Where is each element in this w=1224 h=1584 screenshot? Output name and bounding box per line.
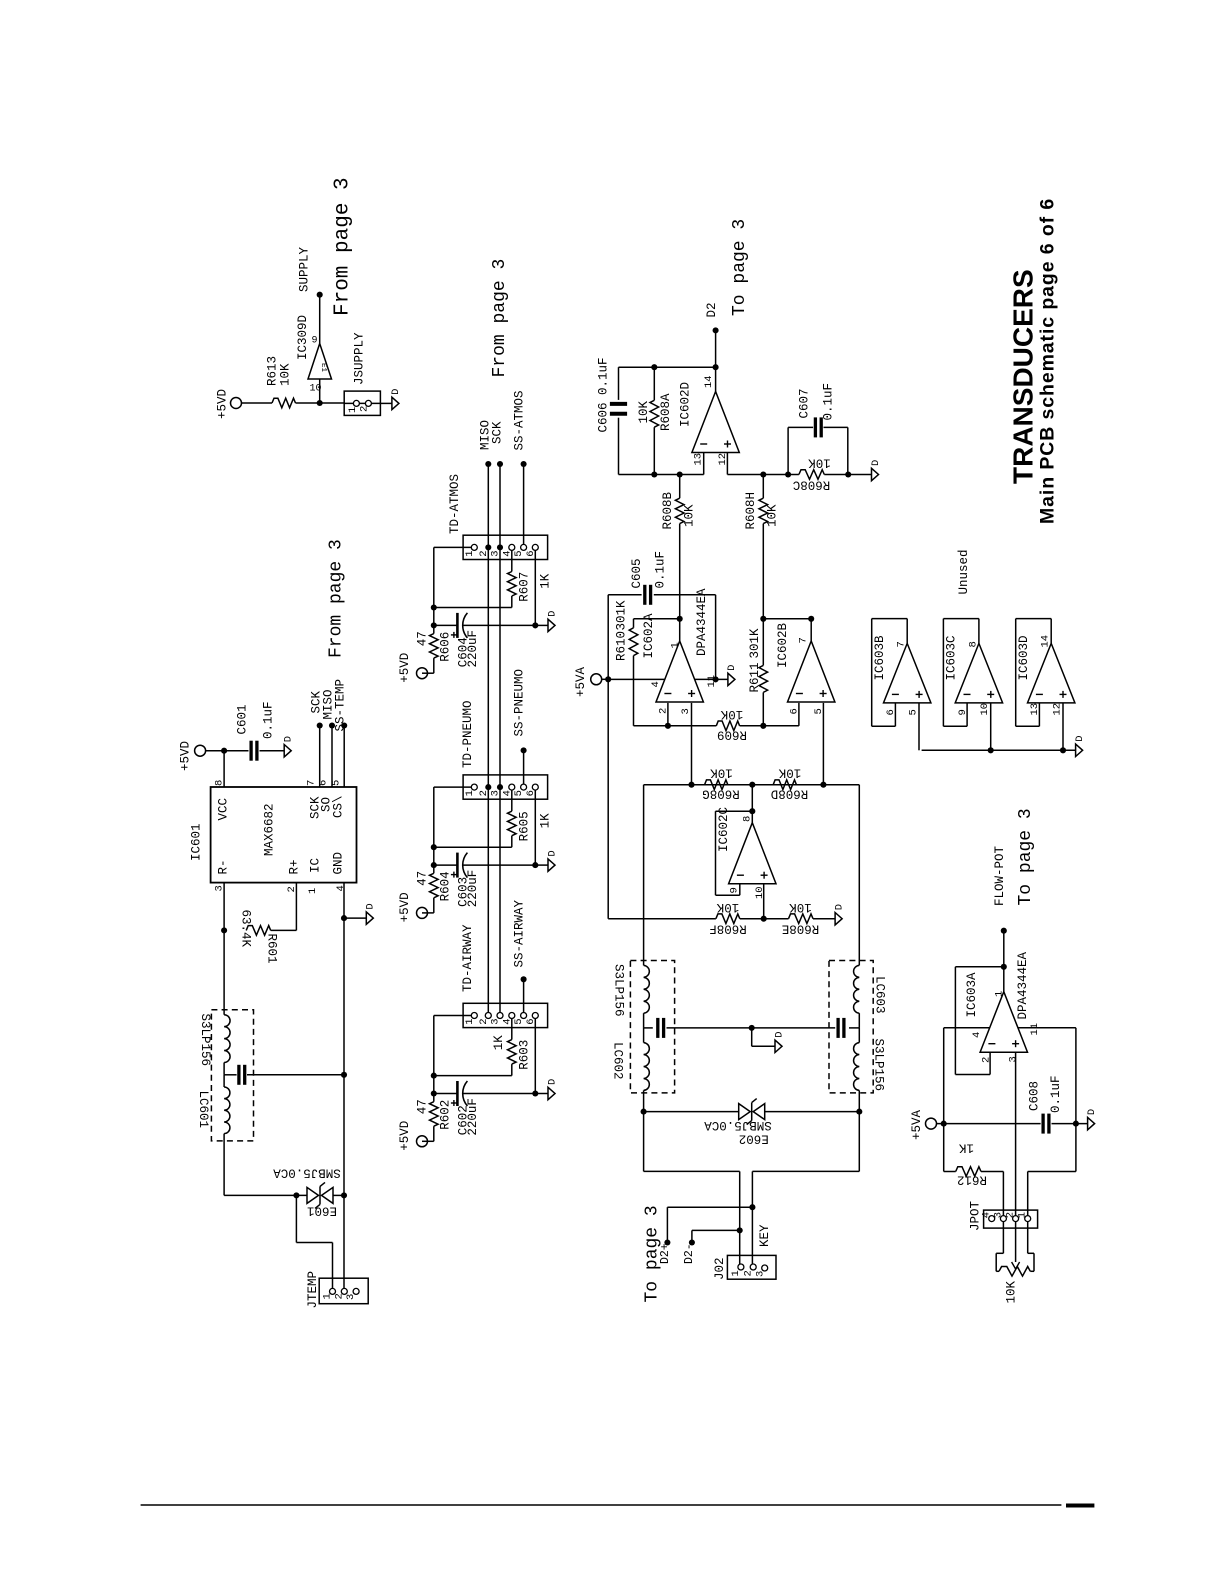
svg-text:10K: 10K bbox=[683, 504, 697, 527]
svg-text:220uF: 220uF bbox=[466, 1098, 480, 1136]
svg-text:14: 14 bbox=[1040, 635, 1052, 648]
wire IC602C pin8 bbox=[751, 785, 753, 823]
ground D (C601) bbox=[283, 736, 295, 757]
node rail row2 TD-PNEUMO bbox=[431, 862, 437, 868]
wire LC602 drop bbox=[643, 785, 645, 966]
svg-text:C608: C608 bbox=[1028, 1081, 1042, 1111]
svg-text:9: 9 bbox=[312, 336, 318, 347]
wire +5VA to rail bbox=[602, 678, 609, 680]
wire C601 to ground bbox=[260, 750, 285, 752]
svg-text:8: 8 bbox=[967, 641, 979, 647]
filter LC601 S3LP156 bbox=[196, 1010, 344, 1141]
node pin4 gnd stub bbox=[341, 915, 366, 921]
svg-text:0.1uF: 0.1uF bbox=[262, 701, 276, 739]
wire IC603D feedback bbox=[1016, 619, 1051, 727]
wire R601 to pin 2 bbox=[271, 883, 298, 931]
wire JTEMP pin1 riser bbox=[296, 1195, 332, 1288]
label From page 3 (SPI) bbox=[327, 539, 347, 658]
svg-text:R608G: R608G bbox=[702, 787, 740, 801]
svg-text:To page 3: To page 3 bbox=[643, 1205, 663, 1302]
svg-text:63.4K: 63.4K bbox=[239, 910, 253, 948]
wire IC602C pin10 bbox=[763, 884, 765, 919]
label Unused bbox=[957, 549, 971, 594]
svg-text:S3LP156: S3LP156 bbox=[612, 964, 626, 1017]
svg-text:D2-: D2- bbox=[683, 1243, 696, 1264]
svg-text:D: D bbox=[283, 736, 295, 742]
svg-text:6: 6 bbox=[318, 780, 330, 786]
resistor R613 10K bbox=[266, 356, 296, 408]
label To page 3 (FLOW-POT) bbox=[1016, 808, 1036, 905]
node R611/R609 bbox=[760, 723, 766, 729]
svg-text:R610: R610 bbox=[615, 631, 629, 661]
svg-text:+5VD: +5VD bbox=[398, 1121, 412, 1151]
diode E602 SMBJ5.0CA bbox=[644, 1099, 860, 1146]
svg-text:4: 4 bbox=[650, 681, 662, 687]
svg-text:TD-AIRWAY: TD-AIRWAY bbox=[461, 924, 475, 992]
svg-text:R606: R606 bbox=[439, 632, 453, 662]
svg-text:R-: R- bbox=[217, 859, 231, 874]
node C607 left bbox=[785, 471, 791, 477]
resistor R608E 10K bbox=[782, 900, 820, 936]
svg-text:LC601: LC601 bbox=[196, 1091, 210, 1129]
node pin6/C604 bbox=[532, 622, 538, 628]
node LC601 cap to gnd rail bbox=[341, 1072, 347, 1078]
svg-text:3: 3 bbox=[1008, 1056, 1020, 1062]
svg-text:301K: 301K bbox=[748, 628, 762, 659]
wire TD-ATMOS pin4 to R607 bbox=[511, 550, 513, 571]
node D2/out bbox=[713, 364, 719, 370]
svg-text:4: 4 bbox=[971, 1032, 983, 1038]
capacitor C603 220uF bbox=[451, 853, 480, 908]
power +5VD (TD-PNEUMO) bbox=[398, 892, 428, 922]
node VCC/C601 bbox=[221, 748, 227, 754]
wire JTEMP pin2 riser bbox=[343, 1195, 345, 1288]
svg-text:R604: R604 bbox=[439, 871, 453, 901]
svg-text:R607: R607 bbox=[518, 572, 532, 602]
power +5VD (TD-AIRWAY) bbox=[398, 1121, 428, 1151]
wire node to JSUPPLY bbox=[320, 402, 345, 404]
capacitor C605 0.1uF bbox=[630, 551, 668, 605]
svg-text:10K: 10K bbox=[808, 456, 831, 470]
ground D (C608) bbox=[1086, 1109, 1098, 1130]
svg-text:47: 47 bbox=[416, 631, 430, 646]
resistor R605 1K bbox=[508, 811, 553, 841]
resistor R608C 10K bbox=[793, 456, 848, 492]
node R608A bottom bbox=[651, 471, 657, 477]
svg-text:R613: R613 bbox=[266, 356, 280, 386]
svg-text:SCK: SCK bbox=[491, 421, 505, 444]
node R608H top bbox=[760, 471, 766, 477]
svg-text:3: 3 bbox=[214, 885, 226, 891]
node pin6/C602 bbox=[532, 1090, 538, 1096]
svg-text:10K: 10K bbox=[720, 707, 743, 721]
title TRANSDUCERS bbox=[1008, 269, 1039, 484]
wire E602 to J02 bbox=[644, 1112, 860, 1265]
capacitor C604 220uF bbox=[451, 613, 480, 668]
svg-text:IC309D: IC309D bbox=[296, 315, 310, 360]
wire R to +5VD (TD-ATMOS) bbox=[422, 658, 434, 673]
svg-text:10: 10 bbox=[979, 703, 991, 716]
svg-text:0.1uF: 0.1uF bbox=[1049, 1075, 1063, 1113]
node pin11/gnd bbox=[713, 676, 719, 682]
wire pin 4 ground rail bbox=[335, 883, 347, 1196]
node R613/IC309D input bbox=[317, 400, 323, 406]
svg-text:+5VA: +5VA bbox=[910, 1109, 924, 1140]
wire IC602B out row bbox=[763, 618, 811, 620]
connector TD-AIRWAY bbox=[461, 924, 548, 1028]
resistor R607 1K bbox=[508, 572, 553, 602]
power +5VD (TD-ATMOS) bbox=[398, 653, 428, 683]
op-amp IC603C (unused) bbox=[945, 635, 1003, 715]
net SCK vertical bbox=[491, 421, 505, 1013]
svg-text:C605: C605 bbox=[630, 558, 644, 588]
svg-text:5: 5 bbox=[907, 709, 919, 715]
svg-text:1: 1 bbox=[1017, 1212, 1029, 1218]
node D2- tap bbox=[737, 1227, 743, 1233]
node E601 left bbox=[293, 1192, 299, 1198]
node rail row1 TD-ATMOS bbox=[431, 604, 437, 610]
net D2 stub bbox=[705, 302, 719, 367]
wire VCC node to pin 8 bbox=[214, 751, 226, 787]
resistor R610 301K bbox=[615, 600, 638, 661]
wire IC603B pin+ to rail bbox=[918, 703, 920, 750]
svg-text:+5VD: +5VD bbox=[398, 653, 412, 683]
label To page 3 (D2 pair) bbox=[643, 1205, 663, 1302]
capacitor C608 0.1uF bbox=[1028, 1075, 1064, 1133]
svg-text:C601: C601 bbox=[236, 704, 250, 734]
wire node to C601 bbox=[224, 750, 248, 752]
resistor R60x 47 (TD-AIRWAY) bbox=[416, 1094, 453, 1130]
svg-text:2: 2 bbox=[1005, 1212, 1017, 1218]
label To page 3 (D2) bbox=[730, 219, 750, 316]
svg-text:5: 5 bbox=[513, 1018, 525, 1024]
svg-text:D: D bbox=[726, 665, 738, 671]
svg-text:C607: C607 bbox=[798, 388, 812, 418]
wire cap row TD-ATMOS bbox=[434, 624, 536, 626]
op-amp IC602D bbox=[679, 375, 740, 465]
svg-text:R608D: R608D bbox=[771, 787, 809, 801]
node IC603C pin10 bbox=[988, 747, 994, 753]
wire D2- stub bbox=[683, 1230, 740, 1264]
wire out to R610 top bbox=[634, 619, 680, 628]
ground D (TD-PNEUMO) bbox=[546, 850, 558, 871]
op-amp IC603A bbox=[965, 951, 1041, 1063]
svg-text:D: D bbox=[390, 389, 402, 395]
wire sensor row bbox=[644, 784, 860, 786]
node IC603A feedback bbox=[1001, 964, 1007, 970]
wire IC603A pin4 to +5VA bbox=[944, 1028, 990, 1124]
wire to ground TD-PNEUMO bbox=[535, 864, 548, 866]
svg-text:R608C: R608C bbox=[793, 478, 831, 492]
wire TD-PNEUMO pin6 down bbox=[534, 790, 536, 865]
svg-text:R603: R603 bbox=[518, 1040, 532, 1070]
svg-text:47: 47 bbox=[416, 1099, 430, 1114]
svg-text:IC602B: IC602B bbox=[776, 622, 790, 668]
svg-text:KEY: KEY bbox=[758, 1224, 772, 1247]
svg-text:1: 1 bbox=[347, 407, 359, 413]
wire R610 to pin2 row bbox=[634, 656, 668, 726]
node pin3/R601 bbox=[221, 927, 227, 933]
wire TD-AIRWAY pin4 to R603 bbox=[511, 1018, 513, 1039]
wire LC mid to ground bbox=[752, 1028, 775, 1046]
svg-text:R+: R+ bbox=[288, 859, 302, 874]
svg-text:8: 8 bbox=[742, 816, 754, 822]
resistor R60x 47 (TD-ATMOS) bbox=[416, 625, 453, 661]
svg-text:10K: 10K bbox=[710, 766, 733, 780]
svg-text:10K: 10K bbox=[716, 900, 739, 914]
ground D (TD-ATMOS) bbox=[546, 611, 558, 632]
svg-text:SMBJ5.0CA: SMBJ5.0CA bbox=[273, 1166, 341, 1180]
svg-text:301K: 301K bbox=[615, 600, 629, 631]
ground D (unused rail) bbox=[1074, 735, 1086, 756]
wire FLOW-POT to IC603A out bbox=[1003, 931, 1005, 992]
svg-text:R609: R609 bbox=[717, 728, 747, 742]
svg-text:1: 1 bbox=[670, 642, 682, 648]
wire +5VD to R613 bbox=[242, 402, 273, 404]
border bottom rule bbox=[141, 1504, 1062, 1506]
node D2+ tap bbox=[749, 1204, 755, 1210]
svg-text:From page 3: From page 3 bbox=[332, 177, 355, 316]
node E601 right bbox=[341, 1192, 347, 1198]
svg-text:7: 7 bbox=[306, 780, 318, 786]
wire IC602D pin12 row bbox=[727, 453, 799, 475]
wire D2+ stub bbox=[659, 1207, 752, 1264]
wire LC601 to E601 bbox=[224, 1134, 307, 1196]
subtitle Main PCB schematic page 6 of 6 bbox=[1037, 198, 1059, 524]
svg-text:2: 2 bbox=[333, 1293, 345, 1299]
junction MISO at TD-ATMOS pin2 bbox=[485, 544, 491, 550]
svg-text:47: 47 bbox=[416, 871, 430, 886]
svg-text:E1: E1 bbox=[319, 363, 327, 373]
wire TD-AIRWAY pin1 to rail bbox=[434, 1016, 472, 1094]
svg-text:IC602D: IC602D bbox=[679, 382, 693, 427]
resistor R608B 10K bbox=[661, 475, 697, 619]
node pin5 row bbox=[820, 782, 826, 788]
node LC mid bbox=[749, 1025, 755, 1031]
wire IC602A pin 4 to +5VA bbox=[608, 679, 665, 687]
svg-text:SS-TEMP: SS-TEMP bbox=[334, 679, 348, 732]
resistor R608G 10K bbox=[702, 766, 740, 801]
node R608B top bbox=[677, 471, 683, 477]
svg-text:R601: R601 bbox=[265, 934, 279, 964]
svg-text:LC602: LC602 bbox=[611, 1042, 625, 1080]
node E602 left bbox=[641, 1109, 647, 1115]
svg-text:SS-PNEUMO: SS-PNEUMO bbox=[513, 669, 527, 737]
wire IC603A pin11 to gnd rail bbox=[1018, 1028, 1076, 1124]
wire IC602A pin2 bbox=[667, 703, 669, 726]
node IC602C feedback bbox=[749, 808, 755, 814]
wire C605 to IC602A V- bbox=[654, 595, 716, 680]
svg-text:D: D bbox=[833, 904, 845, 910]
svg-text:R611: R611 bbox=[748, 662, 762, 692]
border corner dash bbox=[1066, 1504, 1094, 1508]
svg-text:7: 7 bbox=[896, 641, 908, 647]
svg-text:E602: E602 bbox=[739, 1132, 769, 1146]
wire IC603C pin+ to rail bbox=[990, 703, 992, 750]
net FLOW-POT bbox=[993, 845, 1007, 933]
resistor R601 63.4K bbox=[239, 910, 279, 964]
svg-text:+5VD: +5VD bbox=[398, 892, 412, 922]
svg-text:JSUPPLY: JSUPPLY bbox=[353, 332, 367, 385]
net MISO stub to pin 6 bbox=[318, 689, 336, 787]
wire IC602B output bbox=[810, 619, 812, 641]
junction MISO at TD-PNEUMO pin2 bbox=[485, 784, 491, 790]
svg-text:11: 11 bbox=[1029, 1023, 1041, 1036]
wire TD-ATMOS pin6 down bbox=[534, 550, 536, 625]
svg-text:R608E: R608E bbox=[782, 922, 820, 936]
net SCK stub to pin 7 bbox=[306, 690, 324, 787]
svg-text:R608A: R608A bbox=[659, 393, 673, 431]
svg-text:JPOT: JPOT bbox=[969, 1200, 983, 1231]
svg-text:R612: R612 bbox=[957, 1173, 987, 1187]
capacitor C601 0.1uF bbox=[236, 701, 276, 760]
op-amp IC603B (unused) bbox=[873, 635, 931, 716]
svg-text:R608H: R608H bbox=[744, 492, 758, 530]
ground D (IC601 pin4) bbox=[365, 903, 377, 924]
svg-text:10K: 10K bbox=[778, 766, 801, 780]
svg-text:IC602C: IC602C bbox=[717, 807, 731, 852]
svg-text:1: 1 bbox=[307, 888, 319, 894]
node pin6/C603 bbox=[532, 862, 538, 868]
svg-text:SS-AIRWAY: SS-AIRWAY bbox=[513, 899, 527, 967]
svg-text:+5VD: +5VD bbox=[179, 741, 193, 771]
svg-text:E601: E601 bbox=[307, 1204, 337, 1218]
net SS-PNEUMO stub bbox=[513, 669, 527, 784]
capacitor C606 0.1uF bbox=[597, 357, 628, 474]
op-amp IC602B bbox=[776, 622, 835, 714]
wire to ground TD-AIRWAY bbox=[535, 1093, 548, 1095]
svg-text:13: 13 bbox=[693, 453, 705, 466]
resistor R60x 47 (TD-PNEUMO) bbox=[416, 865, 453, 901]
svg-text:DPA4344EA: DPA4344EA bbox=[695, 588, 709, 656]
wire +5VD to C601 node bbox=[206, 750, 225, 752]
filter LC602 S3LP156 bbox=[611, 961, 752, 1112]
node IC602C top bbox=[749, 782, 755, 788]
op-amp IC602A bbox=[642, 588, 709, 715]
wire IC309D output to SUPPLY bbox=[319, 295, 321, 344]
svg-text:5: 5 bbox=[331, 780, 343, 786]
svg-text:1: 1 bbox=[464, 1018, 476, 1024]
svg-text:D: D bbox=[365, 903, 377, 909]
node R608H/R611 bbox=[760, 616, 766, 622]
node pin2/R609 bbox=[665, 723, 671, 729]
connector J02 KEY bbox=[713, 1224, 776, 1280]
node rail row2 TD-ATMOS bbox=[431, 622, 437, 628]
ground D (IC602A pin11) bbox=[726, 665, 738, 686]
svg-text:S3LP156: S3LP156 bbox=[198, 1014, 212, 1067]
svg-text:4: 4 bbox=[335, 885, 347, 891]
svg-text:4: 4 bbox=[981, 1212, 993, 1218]
junction SCK at TD-PNEUMO pin3 bbox=[497, 784, 503, 790]
svg-text:TD-ATMOS: TD-ATMOS bbox=[448, 474, 462, 534]
svg-text:220uF: 220uF bbox=[466, 870, 480, 908]
node E602 right bbox=[856, 1109, 862, 1115]
wire R603 to rail row bbox=[434, 1064, 512, 1076]
power +5VA (FLOW-POT) bbox=[910, 1109, 937, 1140]
node IC602B out bbox=[808, 616, 814, 622]
node pin3 row bbox=[688, 782, 694, 788]
svg-text:5: 5 bbox=[513, 550, 525, 556]
svg-text:C606 0.1uF: C606 0.1uF bbox=[597, 357, 611, 432]
svg-text:+5VA: +5VA bbox=[574, 666, 588, 697]
net MISO vertical bbox=[479, 420, 493, 1013]
svg-text:R608B: R608B bbox=[661, 491, 675, 529]
svg-text:D2: D2 bbox=[705, 302, 719, 317]
node pin10/divider bbox=[761, 916, 767, 922]
wire R to +5VD (TD-AIRWAY) bbox=[422, 1126, 434, 1141]
svg-text:Unused: Unused bbox=[957, 549, 971, 594]
svg-text:1K: 1K bbox=[539, 813, 553, 829]
wire IC603A pin3 to JPOT bbox=[1015, 1052, 1017, 1216]
wire IC603D pin+ to rail bbox=[1062, 703, 1064, 750]
svg-text:D: D bbox=[546, 611, 558, 617]
node rail row2 TD-AIRWAY bbox=[431, 1090, 437, 1096]
wire cap row TD-AIRWAY bbox=[434, 1093, 536, 1095]
svg-text:1K: 1K bbox=[959, 1141, 975, 1155]
wire +5VA row bbox=[937, 1123, 1088, 1125]
wire divider row bbox=[608, 918, 835, 920]
op-amp buffer IC309D bbox=[296, 315, 332, 403]
svg-text:Main PCB schematic page 6 of 6: Main PCB schematic page 6 of 6 bbox=[1037, 198, 1059, 524]
svg-text:SMBJ5.0CA: SMBJ5.0CA bbox=[704, 1118, 772, 1132]
wire TD-PNEUMO pin1 to rail bbox=[434, 787, 472, 865]
svg-text:7: 7 bbox=[798, 637, 810, 643]
svg-text:FLOW-POT: FLOW-POT bbox=[993, 845, 1007, 906]
net SS-TEMP stub to pin 5 bbox=[331, 679, 348, 787]
wire R609 to IC602B pin6 bbox=[740, 725, 799, 727]
svg-text:10K: 10K bbox=[789, 900, 812, 914]
resistor R609 10K bbox=[668, 707, 747, 742]
ground D (R608C) bbox=[870, 460, 882, 481]
wire pin 3 to R601 node bbox=[214, 883, 226, 931]
svg-text:D: D bbox=[546, 850, 558, 856]
wire +5VA rail bbox=[607, 595, 609, 919]
wire R605 to rail row bbox=[434, 836, 512, 848]
node +5VA rail bbox=[605, 676, 611, 682]
svg-text:1K: 1K bbox=[539, 573, 553, 589]
node SUPPLY bbox=[298, 246, 323, 297]
filter LC603 S3LP156 bbox=[752, 961, 887, 1112]
wire D2 to IC602D out bbox=[715, 367, 717, 391]
wire IC602B pin5 bbox=[822, 703, 824, 785]
svg-text:GND: GND bbox=[332, 852, 346, 875]
wire IC603C feedback bbox=[943, 619, 979, 727]
svg-text:IC602A: IC602A bbox=[642, 613, 656, 659]
svg-text:8: 8 bbox=[214, 780, 226, 786]
svg-text:0.1uF: 0.1uF bbox=[654, 551, 668, 589]
svg-text:220uF: 220uF bbox=[466, 630, 480, 668]
svg-text:SS-ATMOS: SS-ATMOS bbox=[513, 390, 527, 450]
op-amp IC603D (unused) bbox=[1017, 635, 1075, 716]
wire JSUPPLY to ground bbox=[380, 402, 392, 404]
svg-text:IC603D: IC603D bbox=[1017, 635, 1031, 680]
wire R to +5VD (TD-PNEUMO) bbox=[422, 898, 434, 913]
node IC603D pin12 bbox=[1060, 747, 1066, 753]
connector JSUPPLY bbox=[344, 332, 380, 415]
svg-text:3: 3 bbox=[992, 1212, 1004, 1218]
resistor R608D 10K bbox=[771, 766, 809, 801]
wire TD-AIRWAY pin6 down bbox=[534, 1018, 536, 1093]
svg-text:To page 3: To page 3 bbox=[1016, 808, 1036, 905]
node rail row1 TD-AIRWAY bbox=[431, 1073, 437, 1079]
label From page 3 (TD nets) bbox=[490, 259, 510, 378]
wire IC602D pin13 bbox=[619, 453, 704, 475]
ground D (JSUPPLY) bbox=[390, 389, 402, 410]
connector JPOT bbox=[969, 1200, 1038, 1231]
IC U IC601 MAX6682 body bbox=[190, 787, 357, 883]
wire R613 to node bbox=[296, 402, 320, 404]
svg-text:IC: IC bbox=[309, 858, 323, 873]
